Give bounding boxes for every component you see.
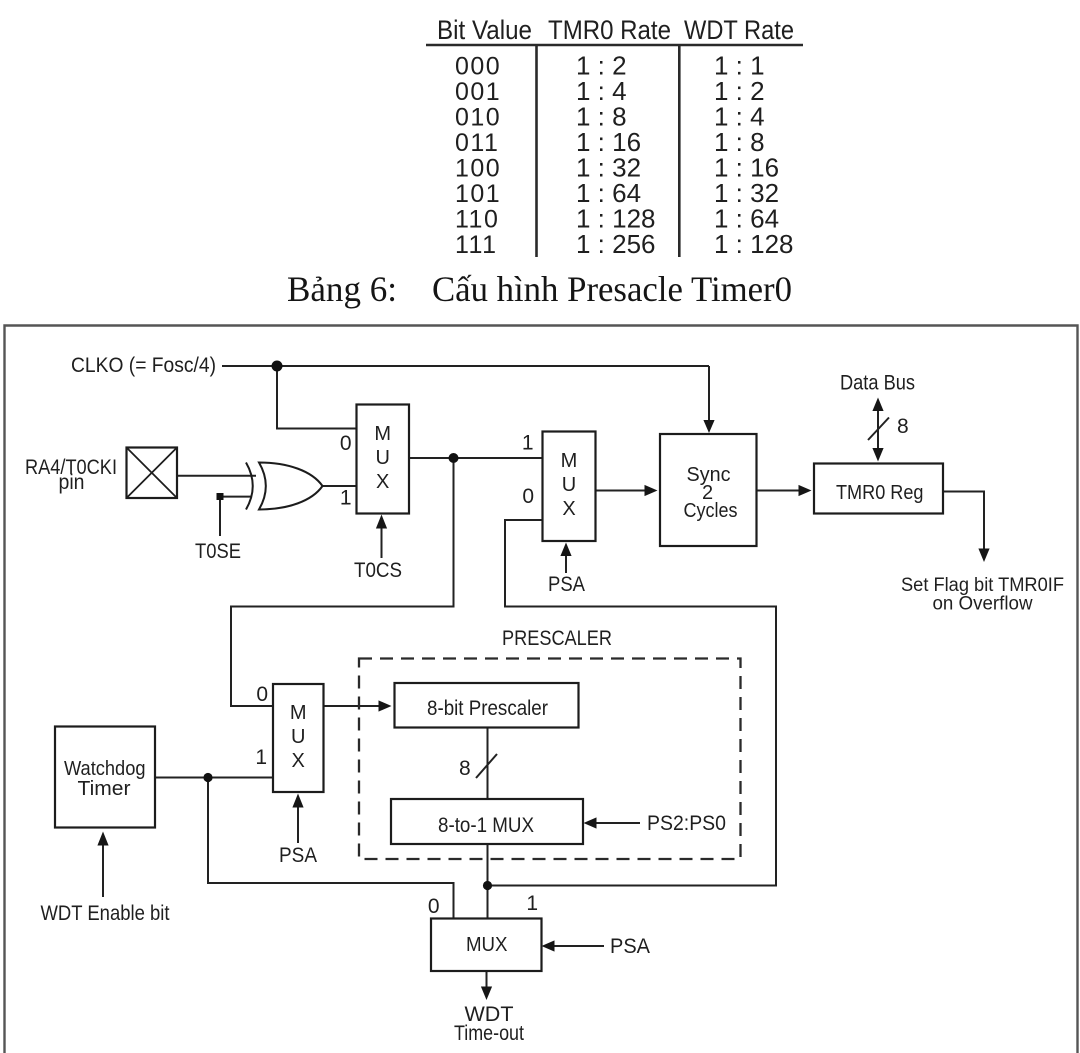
svg-text:0: 0 — [428, 895, 440, 918]
svg-text:U: U — [562, 474, 576, 496]
svg-text:TMR0 Reg: TMR0 Reg — [836, 482, 924, 504]
svg-text:011: 011 — [455, 129, 499, 157]
svg-text:1 : 128: 1 : 128 — [714, 229, 794, 259]
svg-text:M: M — [561, 450, 578, 472]
svg-text:WDT Enable bit: WDT Enable bit — [41, 902, 170, 925]
svg-text:Timer: Timer — [78, 778, 131, 800]
svg-text:TMR0 Rate: TMR0 Rate — [548, 15, 671, 45]
svg-text:100: 100 — [455, 155, 501, 183]
svg-text:PSA: PSA — [610, 935, 650, 958]
svg-text:M: M — [374, 423, 391, 445]
svg-text:X: X — [292, 750, 305, 772]
svg-text:000: 000 — [455, 53, 501, 81]
svg-text:M: M — [290, 702, 307, 724]
svg-text:1: 1 — [340, 487, 352, 510]
svg-text:001: 001 — [455, 78, 501, 106]
svg-text:Time-out: Time-out — [454, 1022, 524, 1045]
svg-text:010: 010 — [455, 104, 501, 132]
svg-text:U: U — [291, 726, 305, 748]
svg-text:1: 1 — [522, 432, 534, 455]
svg-text:101: 101 — [455, 180, 501, 208]
svg-text:U: U — [375, 447, 389, 469]
svg-text:pin: pin — [59, 471, 85, 494]
svg-text:8: 8 — [897, 415, 909, 438]
svg-text:8: 8 — [459, 757, 471, 780]
svg-text:8-to-1 MUX: 8-to-1 MUX — [438, 814, 534, 837]
svg-text:Bit Value: Bit Value — [437, 15, 532, 45]
svg-text:X: X — [376, 471, 389, 493]
svg-text:1 : 256: 1 : 256 — [576, 229, 656, 259]
svg-text:PSA: PSA — [279, 844, 317, 867]
svg-text:Watchdog: Watchdog — [64, 758, 146, 780]
svg-text:PS2:PS0: PS2:PS0 — [647, 812, 726, 835]
svg-text:CLKO (= Fosc/4): CLKO (= Fosc/4) — [71, 354, 216, 377]
svg-text:1: 1 — [526, 892, 538, 915]
svg-text:X: X — [562, 498, 575, 520]
svg-text:Cấu hình Presacle Timer0: Cấu hình Presacle Timer0 — [432, 269, 792, 309]
svg-text:0: 0 — [340, 432, 352, 455]
svg-text:T0SE: T0SE — [195, 540, 241, 563]
svg-text:WDT Rate: WDT Rate — [684, 15, 794, 45]
svg-text:MUX: MUX — [466, 934, 508, 956]
svg-text:1: 1 — [255, 746, 267, 769]
svg-text:8-bit Prescaler: 8-bit Prescaler — [427, 697, 548, 720]
svg-text:0: 0 — [522, 485, 534, 508]
svg-text:0: 0 — [256, 683, 268, 706]
svg-text:Data Bus: Data Bus — [840, 372, 915, 395]
svg-text:PRESCALER: PRESCALER — [502, 627, 612, 650]
svg-text:111: 111 — [455, 231, 498, 259]
svg-text:PSA: PSA — [548, 573, 585, 596]
svg-text:T0CS: T0CS — [354, 559, 402, 582]
svg-text:Cycles: Cycles — [684, 500, 738, 522]
svg-text:on Overflow: on Overflow — [933, 594, 1033, 615]
svg-text:Bảng 6:: Bảng 6: — [287, 269, 397, 309]
svg-text:110: 110 — [455, 206, 499, 234]
